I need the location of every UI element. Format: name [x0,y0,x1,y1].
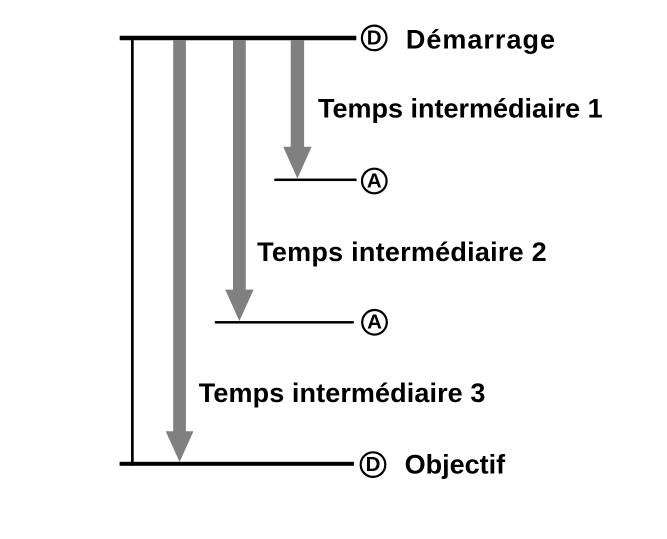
svg-text:Temps intermédiaire 1: Temps intermédiaire 1 [318,94,603,124]
svg-text:Temps intermédiaire 2: Temps intermédiaire 2 [257,237,547,267]
svg-text:Démarrage: Démarrage [406,25,556,55]
svg-text:A: A [367,311,382,334]
svg-text:Objectif: Objectif [405,449,507,479]
svg-text:D: D [366,453,381,476]
svg-text:Temps intermédiaire 3: Temps intermédiaire 3 [199,378,486,408]
svg-text:A: A [367,169,382,192]
svg-text:D: D [367,26,382,49]
